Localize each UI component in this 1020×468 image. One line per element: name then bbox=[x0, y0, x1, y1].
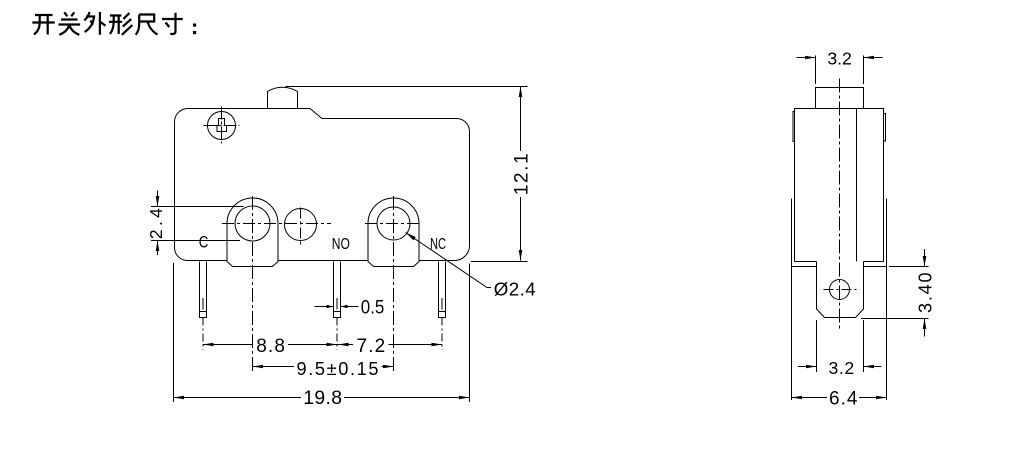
side terminal block bbox=[817, 262, 864, 318]
terminal boss NC bbox=[368, 198, 419, 266]
side right tab bbox=[884, 114, 886, 142]
svg-text:C: C bbox=[199, 234, 209, 252]
svg-text:6.4: 6.4 bbox=[829, 388, 858, 409]
dim 9.5 line bbox=[253, 366, 394, 368]
leader line dia 2.4 bbox=[406, 233, 492, 288]
side centerline bbox=[839, 79, 841, 331]
svg-text:8.8: 8.8 bbox=[256, 336, 285, 357]
side dim 3.2 bottom extension lines bbox=[817, 320, 864, 372]
side sleeve left bbox=[791, 199, 793, 267]
svg-text:3.2: 3.2 bbox=[827, 48, 851, 68]
side body inner line bbox=[856, 109, 858, 262]
crosshair horizontal through C and middle circles bbox=[222, 223, 331, 225]
dim 2.4 arrows and line bbox=[157, 191, 159, 256]
crosshair vertical middle circle bbox=[300, 208, 302, 247]
mounting hole crosshair bbox=[204, 107, 240, 144]
middle circle bbox=[285, 209, 317, 241]
dim 8.8 line bbox=[203, 344, 337, 346]
dim 12.1 extension lines bbox=[286, 87, 528, 262]
crosshair horizontal NC bbox=[365, 223, 422, 225]
plunger button bbox=[268, 87, 298, 108]
svg-text:3.40: 3.40 bbox=[915, 273, 935, 314]
side bottom inner line bbox=[795, 261, 884, 263]
svg-text:0.5: 0.5 bbox=[361, 298, 385, 319]
mounting hole keyhole insert bbox=[217, 119, 227, 132]
pin C centerline bbox=[202, 318, 204, 351]
svg-text:19.8: 19.8 bbox=[303, 387, 342, 409]
pin NO centerline bbox=[336, 318, 338, 351]
dim 19.8 extension lines bbox=[174, 263, 470, 402]
hole NC inner circle bbox=[377, 207, 410, 240]
pin NO bbox=[334, 262, 341, 318]
side body rect bbox=[795, 109, 884, 262]
dim 7.2 line bbox=[337, 344, 442, 346]
title 开 bbox=[32, 15, 54, 35]
title 尺 bbox=[136, 15, 158, 35]
svg-text:Ø2.4: Ø2.4 bbox=[494, 279, 536, 300]
title 寸 bbox=[162, 13, 183, 34]
crosshair vertical NC / extension to 9.5 dim bbox=[393, 196, 395, 373]
terminal boss C bbox=[227, 198, 278, 266]
dim 12.1 line bbox=[520, 87, 522, 261]
title 关 bbox=[59, 12, 81, 35]
pin C bbox=[200, 262, 207, 318]
crosshair vertical hole C / extension to 9.5 dim bbox=[252, 196, 254, 373]
side dim 3.40 arrows bbox=[924, 249, 926, 337]
switch body outline bbox=[175, 109, 470, 261]
side terminal hole crosshair bbox=[824, 289, 857, 291]
svg-text:9.5±0.15: 9.5±0.15 bbox=[297, 359, 379, 379]
title 外 bbox=[84, 12, 105, 35]
side bottom outer line bbox=[792, 266, 887, 268]
hole C inner circle bbox=[235, 206, 270, 241]
svg-text:3.2: 3.2 bbox=[829, 358, 855, 378]
side dim 3.2 top line bbox=[797, 57, 883, 59]
dim 0.5 arrows bbox=[315, 306, 359, 308]
pin NC bbox=[439, 262, 446, 318]
dim 19.8 line bbox=[174, 397, 470, 399]
side dim 3.2 top extension lines bbox=[816, 56, 864, 85]
side plunger bbox=[816, 88, 864, 109]
svg-text:2.4: 2.4 bbox=[146, 208, 166, 239]
side left tab bbox=[793, 112, 795, 142]
pin NC centerline bbox=[441, 318, 443, 351]
mounting hole circle bbox=[208, 112, 236, 140]
side sleeve right bbox=[886, 199, 888, 267]
dim 2.4 extension lines bbox=[151, 207, 244, 241]
svg-text:12.1: 12.1 bbox=[512, 153, 533, 195]
title 形 bbox=[109, 13, 132, 35]
side dim 6.4 line bbox=[792, 397, 887, 399]
svg-text:7.2: 7.2 bbox=[357, 336, 386, 357]
side dim 3.40 extension lines bbox=[861, 267, 929, 319]
side terminal hole bbox=[830, 280, 850, 300]
title colon bbox=[193, 24, 196, 35]
side dim 6.4 extension lines bbox=[792, 267, 887, 401]
side dim 3.2 bottom line bbox=[798, 366, 882, 368]
svg-text:NO: NO bbox=[332, 236, 350, 253]
